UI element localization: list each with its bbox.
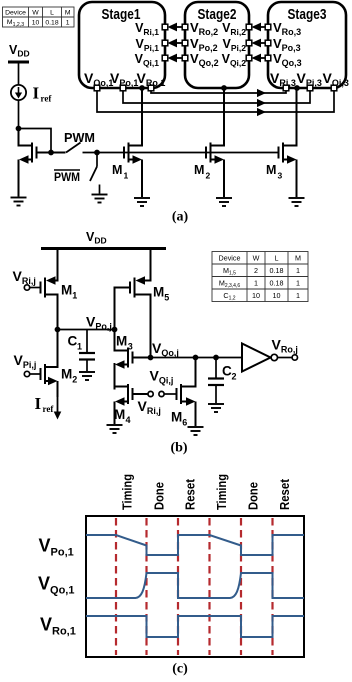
svg-text:0.18: 0.18 (45, 20, 58, 27)
svg-text:PWM: PWM (54, 172, 80, 184)
device table (b) (212, 252, 308, 302)
transistor M2 (a) (206, 88, 224, 197)
svg-text:10: 10 (32, 20, 40, 27)
svg-text:1: 1 (296, 266, 300, 275)
node dot diode drain (16, 126, 22, 132)
ground under M1 (a) (134, 198, 150, 206)
red phase dividers (116, 518, 273, 655)
svg-text:L: L (275, 254, 279, 263)
bottom terminal squares stage3 (283, 85, 337, 91)
VPo,j node wire (58, 329, 115, 331)
svg-text:ref: ref (43, 404, 55, 414)
svg-text:2: 2 (206, 171, 211, 181)
svg-text:M: M (116, 334, 127, 349)
svg-text:M: M (171, 410, 182, 425)
svg-text:M: M (114, 407, 125, 422)
svg-text:I: I (33, 84, 40, 103)
current source Iref (11, 85, 26, 100)
transistor M1 (a) (124, 88, 142, 197)
ground under C1 (79, 372, 95, 380)
Stage1 box (79, 2, 165, 88)
waveform VRo,1 (86, 616, 304, 637)
svg-text:1: 1 (72, 291, 77, 301)
svg-text:2: 2 (72, 375, 77, 385)
VQo,j node wire (133, 357, 243, 359)
Stage3 box (268, 2, 346, 88)
arrows stage2 -> stage1 (175, 27, 184, 58)
waveform VQo,1 (86, 573, 304, 598)
VDD rail (b) (41, 247, 166, 250)
svg-text:M: M (153, 285, 164, 300)
stage2 left labels (190, 20, 219, 68)
node dot gate bus (94, 150, 100, 156)
svg-text:W: W (32, 10, 39, 17)
stage2 right labels (222, 21, 247, 68)
svg-text:(c): (c) (172, 662, 188, 677)
svg-text:M: M (266, 163, 276, 177)
svg-text:Done: Done (246, 482, 261, 510)
diode-connected NMOS (mirrored) (19, 129, 66, 197)
stage1 bottom labels (84, 70, 165, 88)
node dot stage3 bottom (294, 85, 300, 91)
svg-text:4: 4 (126, 415, 131, 425)
svg-text:10: 10 (273, 291, 281, 300)
node dot stage2 bottom (221, 85, 227, 91)
PWM switch blade (66, 143, 81, 153)
waveform VPo,1 (86, 535, 304, 555)
bottom terminal squares stage1 (94, 85, 154, 91)
phase labels (120, 474, 293, 510)
svg-text:I: I (35, 394, 42, 413)
svg-text:M: M (65, 10, 71, 17)
device table (a) (3, 7, 75, 27)
svg-text:3: 3 (278, 171, 283, 181)
Stage2 box (185, 2, 249, 88)
svg-text:Reset: Reset (183, 478, 198, 510)
ground under C2 (208, 404, 224, 412)
svg-text:ref: ref (41, 94, 53, 104)
feedback wire VPo,1 -> VPi,3 (123, 91, 310, 104)
ground under M3 (a) (289, 198, 305, 206)
svg-text:Stage2: Stage2 (198, 6, 237, 23)
transistor M3 (b) mirrored NMOS (115, 330, 150, 390)
ground under M4 (107, 425, 123, 433)
svg-text:1: 1 (296, 291, 300, 300)
svg-text:(a): (a) (172, 210, 189, 225)
transistor M5 (b) PMOS (115, 249, 151, 358)
svg-text:Device: Device (219, 254, 241, 263)
svg-text:Reset: Reset (277, 478, 292, 510)
svg-text:Timing: Timing (214, 474, 229, 510)
capacitor C2 (215, 358, 217, 378)
timing frame (86, 516, 304, 657)
svg-text:5: 5 (164, 293, 169, 303)
svg-text:1: 1 (66, 20, 70, 27)
transistor M3 (a) (279, 88, 297, 197)
svg-text:M: M (295, 254, 301, 263)
svg-text:10: 10 (252, 291, 260, 300)
inverter U1 (242, 344, 271, 372)
stage3 left labels (273, 20, 302, 68)
terminal squares stage2 right edge (246, 24, 252, 61)
wire current source down to node (18, 100, 20, 128)
svg-text:L: L (50, 10, 54, 17)
output terminal VRo,j (292, 355, 297, 360)
gate bus wire (83, 152, 279, 154)
svg-text:Device: Device (5, 10, 26, 17)
transistor M1 (b) PMOS (41, 249, 58, 330)
arrows stage3 -> stage2 (259, 27, 267, 58)
svg-text:0.18: 0.18 (270, 266, 284, 275)
transistor M6 (b) NMOS (177, 358, 196, 427)
svg-text:(b): (b) (170, 441, 187, 456)
capacitor C1 (86, 330, 88, 353)
terminal squares stage3 left edge (265, 24, 271, 61)
svg-text:1: 1 (296, 279, 300, 288)
diode-connect wire (19, 129, 52, 153)
svg-text:Timing: Timing (120, 474, 135, 510)
svg-text:M: M (61, 283, 72, 298)
transistor M4 (b) mirrored NMOS (115, 363, 149, 424)
wire VDD to current source (18, 62, 20, 85)
node dot diode gate (48, 150, 54, 156)
svg-text:2: 2 (232, 372, 237, 382)
svg-text:1: 1 (254, 279, 258, 288)
node dot stage1 bottom (139, 85, 145, 91)
ground under PWMbar switch (92, 195, 108, 203)
Iref sink arrow (b) (57, 395, 59, 413)
ground under diode transistor (11, 198, 27, 206)
svg-text:0.18: 0.18 (270, 279, 284, 288)
svg-text:Done: Done (152, 482, 167, 510)
svg-text:W: W (253, 254, 260, 263)
svg-text:2: 2 (254, 266, 258, 275)
svg-text:M: M (194, 163, 204, 177)
svg-text:M: M (61, 367, 72, 382)
terminal squares stage2 left edge (182, 24, 188, 61)
feedback wire VRo,1 -> VRi,3 (151, 91, 286, 94)
svg-text:M: M (112, 163, 122, 177)
svg-text:1: 1 (77, 342, 82, 352)
svg-text:C: C (68, 334, 78, 349)
svg-text:C: C (222, 364, 232, 379)
terminal squares stage1 right edge (162, 24, 168, 61)
ground under M2 (a) (216, 198, 232, 206)
svg-text:6: 6 (182, 418, 187, 428)
svg-text:Stage3: Stage3 (288, 6, 327, 23)
svg-text:1: 1 (124, 171, 129, 181)
stage1 right-edge labels (135, 21, 160, 68)
PWMbar switch (96, 153, 98, 167)
feedback wire VQo,1 -> VQi,3 (97, 91, 334, 113)
svg-text:3: 3 (128, 342, 133, 352)
terminal VRi,j at M4 gate (148, 391, 153, 396)
ground under M6 (188, 427, 204, 435)
transistor M2 (b) NMOS (41, 330, 58, 398)
stage3 bottom labels (270, 70, 349, 88)
